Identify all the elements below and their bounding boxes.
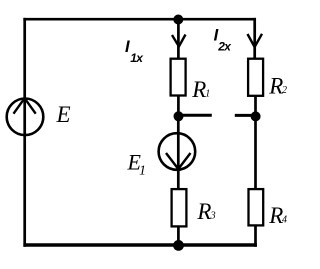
EMF source E [7, 98, 44, 135]
svg-text:2x: 2x [217, 40, 232, 54]
wire stub right of node A (open terminal) [181, 114, 212, 117]
svg-text:4: 4 [282, 214, 287, 225]
svg-text:R: R [196, 199, 211, 224]
node B (below R2) [251, 111, 261, 121]
node bottom junction [173, 240, 184, 251]
svg-text:2: 2 [282, 85, 287, 96]
svg-text:1: 1 [139, 164, 146, 179]
EMF source E1 [159, 133, 196, 170]
svg-text:3: 3 [210, 210, 216, 221]
svg-text:R: R [191, 77, 206, 102]
svg-text:R: R [268, 74, 283, 99]
wire left vertical [23, 18, 26, 247]
svg-text:1: 1 [205, 89, 210, 100]
wire branch2 top vertical [253, 18, 256, 59]
svg-text:R: R [268, 203, 283, 228]
wire R1 bottom to node [177, 96, 180, 119]
wire stub left of node B (open terminal) [235, 114, 253, 117]
resistor R3 [172, 189, 187, 226]
svg-text:1x: 1x [130, 51, 144, 65]
wire top horizontal [23, 18, 256, 21]
resistor R4 [249, 189, 264, 225]
wire node B to R4 [254, 116, 257, 189]
current arrow I1x [172, 35, 186, 47]
wire R2 bottom to node B [254, 96, 257, 118]
current arrow I2x [248, 34, 263, 47]
wire R3 bottom to bottom wire [177, 226, 180, 246]
node top (junction of branch 1) [173, 15, 183, 25]
wire branch1 top vertical [177, 20, 180, 59]
resistor R2 [248, 59, 263, 96]
node A (below R1) [174, 111, 184, 121]
resistor R1 [171, 59, 186, 96]
wire R4 bottom to bottom wire [254, 225, 257, 247]
wire node A through E1 to R3 [177, 116, 180, 189]
wire bottom horizontal [23, 243, 257, 247]
svg-text:E: E [56, 102, 71, 127]
